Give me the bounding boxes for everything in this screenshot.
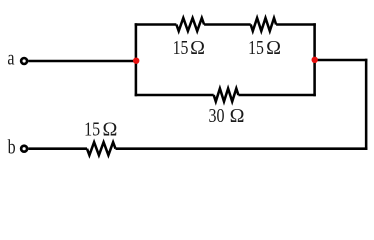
value label of R4: 15 ohm	[84, 118, 100, 140]
svg-text:30: 30	[209, 105, 225, 127]
wire bottom left segment to terminal b	[28, 147, 87, 150]
wire top branch left segment	[135, 23, 177, 26]
label a	[7, 47, 14, 69]
wire from terminal a to node J1	[28, 60, 136, 63]
svg-text:Ω: Ω	[190, 37, 205, 59]
value label of R3: 30 ohm	[209, 105, 225, 127]
wire bottom right segment	[116, 147, 368, 150]
resistor R2 (top right 15 ohm)	[251, 18, 276, 31]
wire top branch right segment	[276, 23, 316, 26]
svg-text:b: b	[8, 136, 16, 158]
wire left vertical side of parallel block	[135, 23, 138, 96]
value label of R1: 15 ohm	[173, 36, 189, 58]
svg-text:a: a	[7, 47, 14, 69]
wire top branch middle segment	[204, 23, 251, 26]
node J2 (right junction dot)	[312, 57, 318, 63]
svg-text:Ω: Ω	[230, 105, 245, 127]
wire middle branch right segment	[238, 94, 315, 97]
label b	[8, 136, 16, 158]
resistor R1 (top left 15 ohm)	[176, 18, 204, 31]
resistor R3 (middle 30 ohm)	[214, 89, 239, 102]
value label of R2: 15 ohm	[248, 36, 264, 58]
svg-text:Ω: Ω	[102, 119, 117, 141]
wire from node J2 to right edge	[315, 59, 368, 62]
terminal a	[21, 58, 27, 64]
svg-text:Ω: Ω	[266, 37, 281, 59]
svg-text:15: 15	[173, 36, 189, 58]
svg-text:15: 15	[248, 36, 264, 58]
resistor R4 (bottom 15 ohm)	[87, 142, 116, 155]
terminal b	[21, 146, 27, 152]
node J1 (left junction dot)	[133, 58, 139, 64]
svg-text:15: 15	[84, 118, 100, 140]
wire right outer vertical	[365, 59, 368, 150]
wire middle branch left segment	[135, 94, 214, 97]
wire right vertical side of parallel block	[313, 23, 316, 96]
